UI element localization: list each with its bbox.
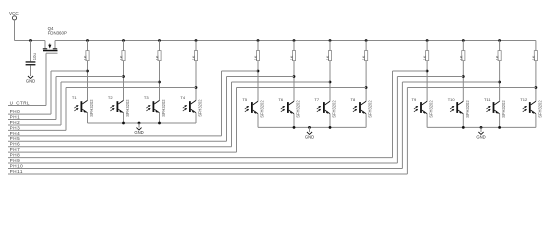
svg-text:SFH3202: SFH3202 [89, 99, 94, 117]
junction rail R2 [122, 39, 125, 42]
wire PH8 level run [393, 70, 428, 72]
junction emitter T10 [462, 126, 465, 129]
phototransistor T4 SFH3202 [180, 95, 202, 123]
wire R10 to T10 collector [462, 61, 464, 102]
resistor R9 1K [423, 41, 429, 61]
resistor R12 1K [532, 41, 538, 61]
wire PH1 riser [55, 77, 57, 120]
resistor R1 1K [84, 41, 90, 61]
svg-text:T8: T8 [351, 97, 356, 102]
svg-text:PH5: PH5 [10, 136, 21, 141]
junction emitter T11 [498, 126, 501, 129]
resistor R11 1K [496, 41, 502, 61]
svg-text:GND: GND [134, 130, 143, 135]
svg-text:SFH3202: SFH3202 [260, 100, 265, 118]
junction PH9 column [462, 75, 465, 78]
phototransistor T12 SFH3202 [520, 97, 542, 127]
net label PH1 [8, 114, 56, 119]
svg-text:VCC: VCC [9, 11, 19, 16]
wire R4 to T4 collector [195, 61, 197, 101]
junction rail R6 [293, 39, 296, 42]
resistor R10 1K [459, 41, 465, 61]
wire PH4 level run [222, 70, 259, 72]
svg-text:PH1: PH1 [10, 114, 21, 119]
wire VCC rail [55, 40, 536, 42]
svg-text:T6: T6 [278, 97, 283, 102]
net label PH0 [8, 109, 51, 114]
wire Q4 gate to U_CTR [45, 53, 47, 105]
wire PH9 riser [396, 77, 398, 164]
net label PH2 [8, 120, 61, 125]
svg-text:T3: T3 [144, 95, 149, 100]
junction PH8 column [426, 70, 429, 73]
svg-text:SFH3202: SFH3202 [368, 100, 373, 118]
net label PH10 [8, 163, 402, 168]
resistor R4 1K [192, 41, 198, 61]
junction rail R8 [365, 39, 368, 42]
wire R3 to T3 collector [159, 61, 161, 101]
svg-text:PH6: PH6 [10, 142, 21, 147]
junction ground tap group 1 [138, 122, 141, 125]
junction ground tap group 2 [308, 126, 311, 129]
svg-text:GND: GND [26, 78, 35, 83]
phototransistor T8 SFH3202 [351, 97, 373, 127]
wire emitter rail group 1 [88, 122, 197, 124]
wire PH8 riser [392, 71, 394, 158]
supply symbol VCC [9, 11, 19, 20]
phototransistor T2 SFH3202 [108, 95, 130, 123]
wire PH6 riser [231, 82, 233, 147]
wire PH9 level run [397, 76, 463, 78]
svg-text:1K: 1K [84, 55, 88, 60]
svg-text:PH7: PH7 [10, 147, 21, 152]
svg-text:GND: GND [305, 134, 314, 139]
junction PH10 column [498, 81, 501, 84]
net label U_CTR [8, 100, 46, 105]
junction emitter T2 [122, 122, 125, 125]
wire PH11 level run [407, 87, 536, 89]
wire R8 to T8 collector [365, 61, 367, 102]
svg-text:T12: T12 [520, 97, 528, 102]
ground GND group 1 [134, 123, 143, 135]
svg-text:SFH3202: SFH3202 [465, 100, 470, 118]
junction PH3 column [195, 86, 198, 89]
junction PH6 column [329, 81, 332, 84]
resistor R3 1K [156, 41, 162, 61]
wire PH2 level run [61, 81, 160, 83]
svg-text:SFH3202: SFH3202 [296, 100, 301, 118]
ground GND group 3 [476, 127, 485, 139]
resistor R7 1K [326, 41, 332, 61]
junction capacitor tap [29, 39, 32, 42]
junction PH0 column [86, 70, 89, 73]
junction PH11 column [535, 86, 538, 89]
wire R5 to T5 collector [257, 61, 259, 102]
junction emitter T6 [293, 126, 296, 129]
phototransistor T5 SFH3202 [242, 97, 264, 127]
svg-text:PH4: PH4 [10, 131, 21, 136]
junction rail R1 [86, 39, 89, 42]
phototransistor T6 SFH3202 [278, 97, 300, 127]
phototransistor T3 SFH3202 [144, 95, 166, 123]
wire R11 to T11 collector [499, 61, 501, 102]
svg-text:SFH3202: SFH3202 [198, 99, 203, 117]
svg-text:T11: T11 [484, 97, 491, 102]
phototransistor T10 SFH3202 [448, 97, 470, 127]
wire R2 to T2 collector [123, 61, 125, 101]
net label PH9 [8, 158, 397, 163]
svg-text:T1: T1 [72, 95, 77, 100]
wire PH3 riser [65, 88, 67, 131]
wire PH0 riser [50, 71, 52, 114]
resistor R6 1K [290, 41, 296, 61]
net label PH6 [8, 142, 232, 147]
svg-text:T10: T10 [448, 97, 456, 102]
svg-text:1K: 1K [459, 55, 463, 60]
wire PH7 level run [237, 87, 367, 89]
net label PH11 [8, 169, 407, 174]
net label PH5 [8, 136, 227, 141]
junction rail R9 [426, 39, 429, 42]
svg-text:SFH3202: SFH3202 [332, 100, 337, 118]
net label PH7 [8, 147, 237, 152]
svg-text:1K: 1K [362, 55, 366, 60]
svg-text:10u: 10u [32, 53, 37, 61]
wire R12 to T12 collector [535, 61, 537, 102]
junction PH7 column [365, 86, 368, 89]
resistor R2 1K [120, 41, 126, 61]
junction rail R10 [462, 39, 465, 42]
svg-text:SFH3202: SFH3202 [161, 99, 166, 117]
junction rail R5 [257, 39, 260, 42]
wire PH10 riser [401, 82, 403, 169]
svg-text:FDN360P: FDN360P [48, 31, 67, 36]
svg-text:GND: GND [476, 134, 485, 139]
junction PH5 column [293, 75, 296, 78]
wire R1 to T1 collector [87, 61, 89, 101]
phototransistor T11 SFH3202 [484, 97, 506, 127]
svg-text:1K: 1K [326, 55, 330, 60]
wire PH6 level run [232, 81, 331, 83]
junction rail R4 [195, 39, 198, 42]
wire emitter rail group 2 [258, 126, 366, 128]
wire PH5 riser [226, 77, 228, 142]
wire R7 to T7 collector [329, 61, 331, 102]
ground GND (capacitor) [26, 76, 35, 83]
transistor Q4 FDN360P p-mosfet [43, 26, 67, 53]
wire PH3 level run [66, 87, 196, 89]
svg-text:PH2: PH2 [10, 120, 21, 125]
wire emitter rail group 3 [427, 126, 536, 128]
junction emitter T7 [329, 126, 332, 129]
svg-text:SFH3202: SFH3202 [125, 99, 130, 117]
phototransistor T9 SFH3202 [412, 97, 434, 127]
svg-text:T2: T2 [108, 95, 113, 100]
junction PH2 column [158, 81, 161, 84]
junction rail R3 [158, 39, 161, 42]
svg-text:U_CTRL: U_CTRL [10, 100, 30, 105]
svg-text:PH0: PH0 [10, 109, 21, 114]
svg-text:1K: 1K [254, 55, 258, 60]
resistor R5 1K [254, 41, 260, 61]
svg-text:T9: T9 [412, 97, 417, 102]
net label PH3 [8, 125, 66, 130]
svg-text:1K: 1K [496, 55, 500, 60]
phototransistor T1 SFH3202 [72, 95, 94, 123]
junction PH4 column [257, 70, 260, 73]
junction rail R7 [329, 39, 332, 42]
svg-text:1K: 1K [156, 55, 160, 60]
wire PH1 level run [56, 76, 124, 78]
svg-text:1K: 1K [290, 55, 294, 60]
net label PH4 [8, 131, 222, 136]
svg-text:1K: 1K [423, 55, 427, 60]
svg-text:SFH3202: SFH3202 [538, 100, 543, 118]
svg-text:1K: 1K [532, 55, 536, 60]
svg-text:SFH3202: SFH3202 [429, 100, 434, 118]
net label PH8 [8, 153, 393, 158]
svg-text:1K: 1K [120, 55, 124, 60]
wire PH0 level run [51, 70, 88, 72]
wire VCC to Q4 source [15, 20, 46, 41]
svg-text:T5: T5 [242, 97, 247, 102]
svg-text:SFH3202: SFH3202 [501, 100, 506, 118]
capacitor C1 10u [26, 41, 37, 77]
junction PH1 column [122, 75, 125, 78]
wire R9 to T9 collector [426, 61, 428, 102]
junction ground tap group 3 [480, 126, 483, 129]
phototransistor T7 SFH3202 [314, 97, 336, 127]
svg-text:1K: 1K [192, 55, 196, 60]
wire PH5 level run [227, 76, 295, 78]
junction rail R11 [498, 39, 501, 42]
svg-text:PH9: PH9 [10, 158, 21, 163]
wire PH2 riser [60, 82, 62, 125]
wire PH11 riser [406, 88, 408, 174]
svg-text:T7: T7 [314, 97, 319, 102]
svg-text:PH11: PH11 [10, 169, 23, 174]
wire PH7 riser [236, 88, 238, 153]
svg-text:PH3: PH3 [10, 125, 21, 130]
svg-text:PH10: PH10 [10, 163, 24, 168]
wire PH4 riser [221, 71, 223, 136]
wire R6 to T6 collector [293, 61, 295, 102]
resistor R8 1K [362, 41, 368, 61]
svg-text:PH8: PH8 [10, 153, 21, 158]
wire PH10 level run [402, 81, 499, 83]
ground GND group 2 [305, 127, 314, 139]
junction emitter T3 [158, 122, 161, 125]
svg-text:T4: T4 [180, 95, 185, 100]
